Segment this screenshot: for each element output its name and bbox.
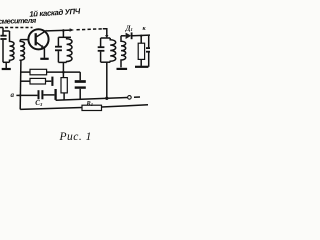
wire: left bus xyxy=(19,61,22,110)
wire: to diode xyxy=(121,35,126,37)
junction (diode/resistor) xyxy=(140,35,142,37)
wire: bottom bus right xyxy=(102,105,149,107)
ground (emitter) xyxy=(40,58,48,60)
wire: tankC stub xyxy=(62,30,64,37)
junction (tank2 / AGC) xyxy=(105,97,108,100)
wire: row1 left lead xyxy=(20,71,30,73)
arrow (into tank2) xyxy=(105,35,108,39)
wire: vertical resistor bottom lead xyxy=(63,93,65,100)
inductor L5 (detector secondary) xyxy=(121,36,126,68)
wire: tankC bottom stub xyxy=(62,62,64,72)
wire: row2 left lead xyxy=(20,80,30,82)
junction xyxy=(62,29,65,32)
ground (tank1) xyxy=(2,68,11,70)
svg-text:а: а xyxy=(11,91,15,99)
wire: tank2 bottom xyxy=(101,61,111,63)
capacitor plate (bar right of C3) xyxy=(54,89,56,100)
wire: collector xyxy=(47,29,71,32)
wire: bottom bus left xyxy=(20,108,82,110)
capacitor (decoupling, top-right of row1) xyxy=(79,72,81,80)
wire: dashed link to tank2 xyxy=(77,29,104,30)
ground (secondary) xyxy=(117,68,128,70)
wire: dash after terminal xyxy=(134,96,140,98)
capacitor (right edge) xyxy=(148,36,150,48)
wire: resistor bottom lead xyxy=(140,59,142,66)
wire: after diode xyxy=(133,34,151,37)
capacitor (tank2) xyxy=(100,38,102,47)
resistor (vertical) lead xyxy=(62,72,64,78)
wire: tank2 top xyxy=(101,37,111,39)
wire: row1 right xyxy=(47,71,81,73)
resistor (vertical, center) xyxy=(61,78,67,93)
svg-text:1й каскад УПЧ: 1й каскад УПЧ xyxy=(29,7,81,19)
transistor VT1 xyxy=(28,29,48,49)
wire: tankC bottom xyxy=(58,61,66,63)
junction (node a) xyxy=(19,94,21,96)
svg-text:С3: С3 xyxy=(35,99,43,107)
ground (detector RC) xyxy=(135,66,148,68)
svg-text:Д1: Д1 xyxy=(125,24,133,32)
arrow (signal direction) xyxy=(70,28,74,31)
wire: row2 right lead xyxy=(46,80,52,82)
wire: tank2 long stub down xyxy=(106,62,108,98)
wire: AGC line xyxy=(56,98,128,101)
inductor L1 (tank1 coil) xyxy=(10,31,15,62)
inductor L3 (tank C coil) xyxy=(67,37,72,62)
svg-text:к: к xyxy=(143,25,147,32)
wire: tank1 ground stub xyxy=(5,62,7,68)
inductor L4 (tank2 coil) xyxy=(110,38,116,62)
wire: base lead xyxy=(20,39,29,41)
wire: C3 left xyxy=(20,94,37,96)
junction (row1/tankC) xyxy=(62,71,65,74)
svg-text:R1: R1 xyxy=(86,100,94,107)
capacitor C3 xyxy=(38,90,40,99)
wire: node a stub xyxy=(16,94,20,96)
diode D1 xyxy=(126,33,132,39)
wire: tankC top xyxy=(58,36,71,38)
svg-text:смесителя: смесителя xyxy=(0,16,37,26)
wire: tank1 bottom xyxy=(3,61,10,63)
resistor (row1) xyxy=(30,69,47,75)
terminal (circle) xyxy=(128,96,132,100)
wire: dashed input line xyxy=(0,27,33,29)
capacitor plate (row2 terminal bar) xyxy=(51,77,53,86)
wire: tank1 top xyxy=(3,30,10,32)
inductor L2 (transformer secondary) xyxy=(20,40,24,61)
wire: corner into tank2 xyxy=(103,29,107,36)
wire: C3 right xyxy=(43,94,54,96)
capacitor (tank C) xyxy=(57,37,59,46)
capacitor C1 (input tank) xyxy=(2,28,4,36)
resistor R1 xyxy=(82,105,102,110)
resistor (detector load) xyxy=(138,43,144,59)
resistor (detector load) lead xyxy=(140,36,142,44)
resistor (row2) xyxy=(30,78,46,84)
svg-text:Рис. 1: Рис. 1 xyxy=(59,131,92,143)
